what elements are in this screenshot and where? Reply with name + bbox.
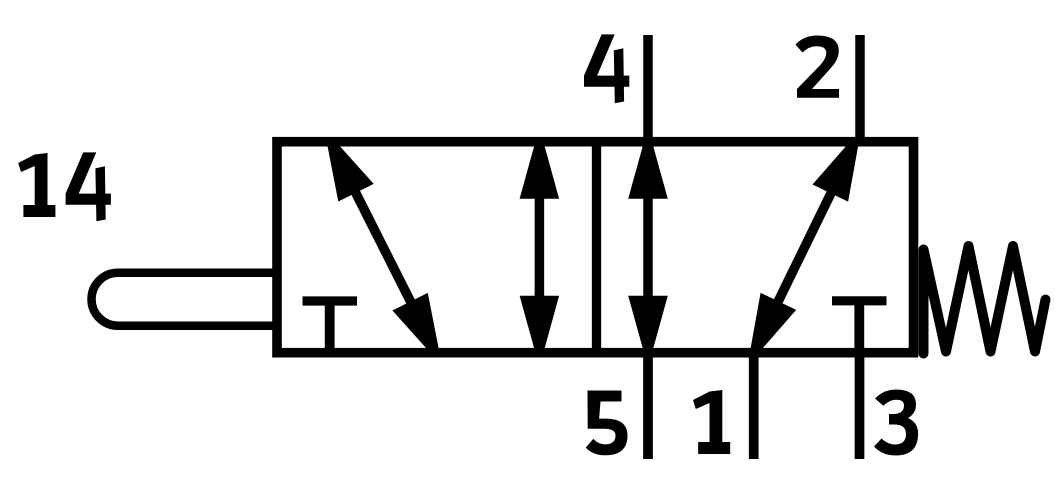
blocked port T right (port 3) [832, 301, 887, 353]
label 1 [693, 390, 730, 454]
flow arrow 2-3 (left square vertical, double headed) [520, 142, 560, 353]
return spring [924, 246, 1046, 354]
flow arrow 1-2 (right square diagonal, double headed) [750, 140, 859, 354]
label 3 [874, 390, 918, 456]
label 14 [18, 152, 111, 221]
port 4 line [643, 35, 653, 146]
valve body outline [277, 142, 914, 353]
label 4 [584, 34, 629, 103]
port 2 line [855, 35, 865, 146]
label 5 [586, 391, 628, 456]
port 3 line [855, 350, 865, 459]
port 5 line [643, 350, 653, 459]
blocked port T left (port 5 in position b) [303, 301, 358, 353]
position divider [592, 137, 601, 357]
flow arrow 4-5 (right square vertical, double headed) [628, 142, 668, 353]
port 1 line [749, 350, 759, 459]
pin / plunger actuator (port 14 side) [92, 273, 278, 326]
label 2 [796, 36, 840, 98]
flow arrow 1-4 (left square diagonal, double headed) [327, 140, 439, 355]
